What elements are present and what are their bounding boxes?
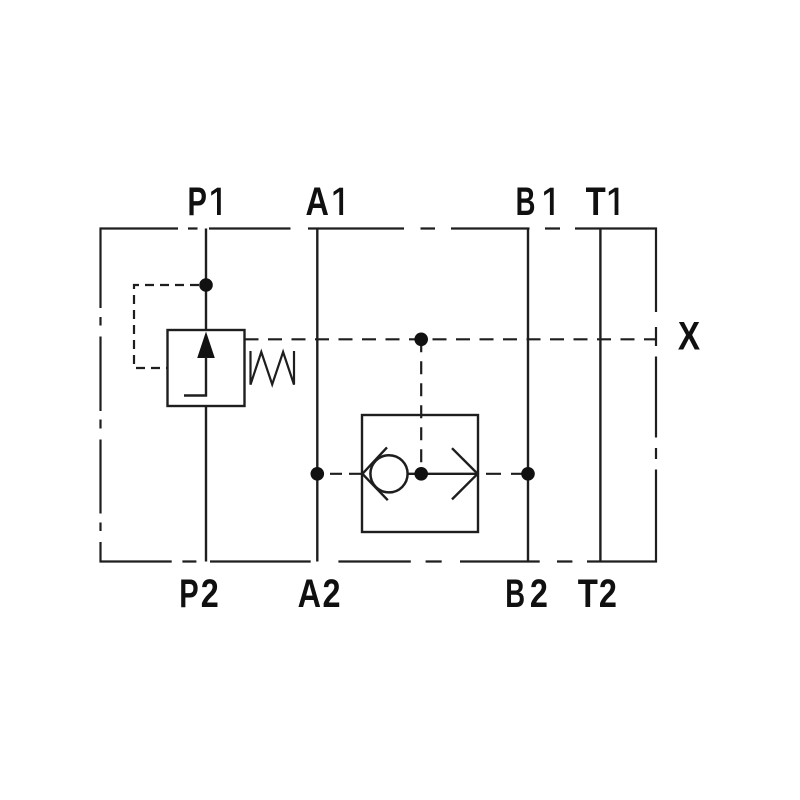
wire P1-P2 vertical line (upper segment) (205, 229, 207, 331)
check valve CV body (362, 415, 478, 532)
svg-text:X: X (678, 315, 700, 359)
relief valve V1 spring (251, 351, 295, 385)
wire T1-T2 vertical line (599, 229, 601, 562)
svg-text:T: T (578, 572, 598, 616)
enclosure boundary right edge (chain line) (655, 228, 657, 563)
wire B1-B2 vertical line (527, 229, 529, 562)
junction dot at check valve center (414, 467, 428, 481)
svg-text:2: 2 (323, 572, 341, 616)
wire P1-P2 vertical line (lower segment) (205, 406, 207, 562)
check valve CV internal flow line (408, 473, 478, 475)
check valve CV seat (362, 447, 387, 500)
relief valve V1 flow arrow (filled triangle) (197, 332, 215, 359)
svg-text:P: P (179, 572, 198, 616)
enclosure boundary top edge (chain line) (100, 227, 658, 229)
junction dot on A line (311, 467, 325, 481)
svg-text:T: T (586, 180, 606, 224)
junction dot on X pilot line (414, 333, 428, 347)
svg-text:P: P (188, 180, 207, 224)
pilot line X to check valve (dashed vertical) (420, 339, 422, 474)
enclosure boundary bottom edge (chain line) (100, 560, 658, 562)
pilot line check valve to B (dashed) (486, 473, 528, 475)
relief valve V1 internal tail line (184, 357, 206, 396)
svg-text:2: 2 (599, 572, 617, 616)
enclosure boundary left edge (chain line) (99, 228, 101, 563)
svg-text:2: 2 (530, 572, 548, 616)
svg-text:B: B (516, 180, 536, 224)
svg-text:A: A (298, 572, 321, 616)
junction dot on P line (199, 278, 213, 292)
pilot line X (dashed horizontal) (245, 338, 657, 340)
relief valve V1 body (168, 330, 245, 406)
check valve CV ball (circle) (370, 455, 407, 492)
pilot line A to check valve (dashed) (330, 473, 362, 475)
relief valve V1 pilot sense line (dashed) (134, 285, 199, 368)
wire A1-A2 vertical line (316, 229, 318, 562)
junction dot on B line (521, 467, 535, 481)
check valve CV arrow head (452, 448, 478, 499)
svg-text:B: B (505, 572, 525, 616)
svg-text:A: A (306, 180, 329, 224)
svg-text:2: 2 (201, 572, 219, 616)
